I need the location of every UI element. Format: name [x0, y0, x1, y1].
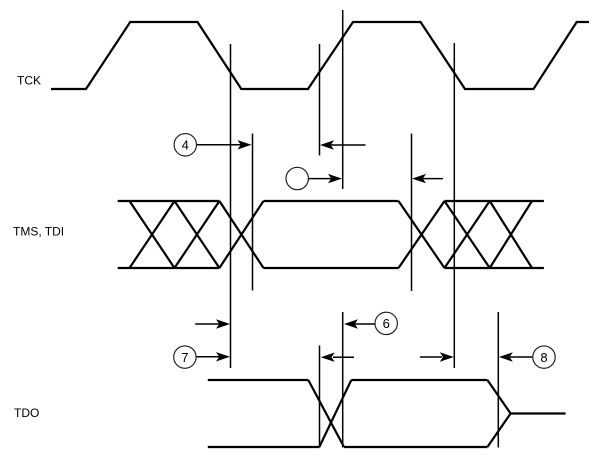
svg-text:TDO: TDO	[14, 406, 39, 420]
svg-text:8: 8	[540, 350, 547, 365]
svg-text:TCK: TCK	[17, 74, 41, 88]
svg-text:7: 7	[181, 350, 188, 365]
svg-text:4: 4	[182, 138, 189, 153]
svg-text:6: 6	[383, 316, 390, 331]
svg-text:TMS, TDI: TMS, TDI	[13, 225, 64, 239]
